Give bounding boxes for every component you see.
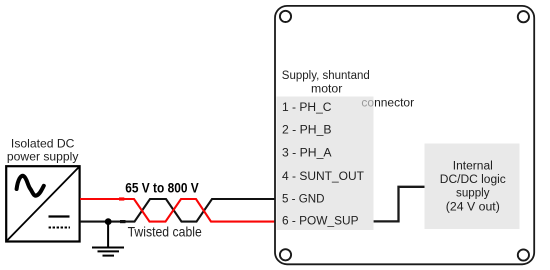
svg-text:6 - POW_SUP: 6 - POW_SUP <box>282 216 359 228</box>
svg-text:Isolated DC: Isolated DC <box>11 137 75 151</box>
svg-text:2 - PH_B: 2 - PH_B <box>282 125 332 137</box>
svg-text:4 - SUNT_OUT: 4 - SUNT_OUT <box>282 171 364 183</box>
svg-text:65 V to 800 V: 65 V to 800 V <box>125 179 199 195</box>
svg-text:Internal: Internal <box>453 161 493 173</box>
svg-text:(24 V out): (24 V out) <box>446 201 500 213</box>
connector pin block <box>277 97 374 231</box>
svg-text:3 - PH_A: 3 - PH_A <box>282 148 332 160</box>
label: Isolated DC power supply <box>7 137 79 164</box>
svg-text:1 - PH_C: 1 - PH_C <box>282 102 332 114</box>
svg-text:motor: motor <box>311 84 342 96</box>
black wire tick mark <box>120 220 126 223</box>
svg-text:Twisted cable: Twisted cable <box>128 224 202 240</box>
red wire tick mark <box>119 197 124 200</box>
diagonal line <box>7 167 78 240</box>
svg-text:power supply: power supply <box>7 150 79 164</box>
wire black negative (twisted pair) <box>80 199 275 222</box>
connector housing (rounded) <box>275 6 534 264</box>
screw hole top-right <box>518 11 529 22</box>
svg-text:5 - GND: 5 - GND <box>282 193 325 205</box>
label: Supply, shuntand motor <box>282 70 370 96</box>
node junction on black wire <box>105 218 112 225</box>
svg-text:supply: supply <box>456 188 490 200</box>
wire red positive (twisted pair) <box>80 199 275 222</box>
DC symbol solid line <box>49 215 70 217</box>
screw hole bottom-right <box>518 249 529 260</box>
svg-text:Supply, shuntand: Supply, shuntand <box>282 70 370 82</box>
AC sine symbol <box>17 176 44 196</box>
power supply PS1 box <box>6 166 79 241</box>
screw hole top-left <box>280 11 291 22</box>
screw hole bottom-left <box>280 249 291 260</box>
ground <box>92 222 124 256</box>
wire POW_SUP to DC/DC supply <box>374 187 425 222</box>
svg-text:connector: connector <box>361 96 414 110</box>
internal DC/DC logic supply block <box>425 144 520 230</box>
DC symbol dotted line <box>49 227 70 229</box>
svg-text:DC/DC logic: DC/DC logic <box>440 174 506 186</box>
